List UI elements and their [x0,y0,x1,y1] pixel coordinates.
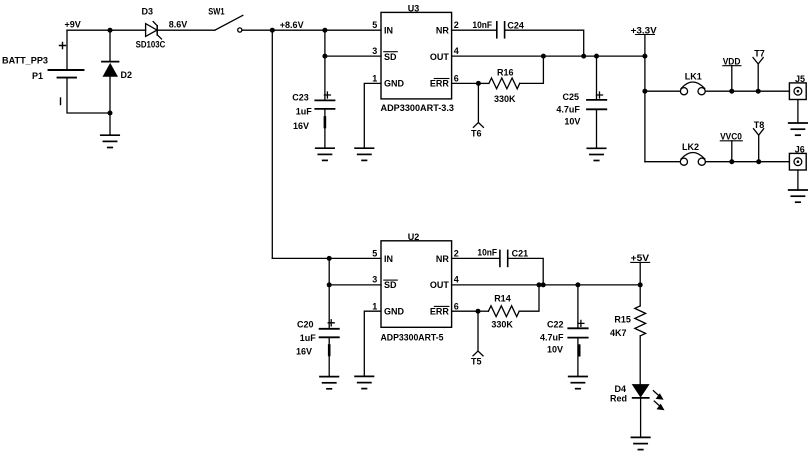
svg-text:+3.3V: +3.3V [631,25,657,35]
svg-text:C22: C22 [547,320,564,330]
wire U2 IN row [272,257,329,259]
op-amp U2 ADP3300ART-5 [372,232,458,343]
node R16/OUT junction [541,54,546,59]
svg-text:R16: R16 [497,67,514,77]
svg-text:5: 5 [372,20,377,30]
svg-text:6: 6 [454,301,459,311]
svg-text:ERR: ERR [430,79,450,89]
svg-text:C25: C25 [563,92,580,102]
node D2 top junction [108,28,113,33]
ground C25 [587,148,605,160]
node SD junction [322,54,327,59]
svg-text:IN: IN [384,254,393,264]
net label +5V [631,253,650,285]
svg-text:P1: P1 [32,71,43,81]
node +5V junction [638,282,643,287]
wire SD node down to C23 [324,56,326,100]
svg-text:+8.6V: +8.6V [280,20,304,30]
ground C23 [316,148,334,160]
ground U3 [355,148,373,160]
net label VVCO [720,132,742,162]
wire LK2 to J6 [705,161,789,163]
wire U2 GND pin 1 [364,311,381,376]
wire battery bottom [67,78,110,113]
svg-text:VVC0: VVC0 [720,132,742,142]
wire to ground [109,113,111,135]
svg-text:T7: T7 [754,48,765,58]
svg-text:16V: 16V [293,121,309,131]
svg-text:3: 3 [372,46,377,56]
svg-text:8.6V: 8.6V [169,20,188,30]
svg-text:ADP3300ART-5: ADP3300ART-5 [381,333,444,343]
wire +3.3V down to links [644,56,646,162]
wire battery top vertical [66,30,68,70]
wire D3 to SW1 [157,29,215,31]
svg-text:IN: IN [384,25,393,35]
svg-text:10V: 10V [564,117,580,127]
node LK1 branch junction [642,89,647,94]
svg-text:+5V: +5V [631,253,650,263]
svg-text:SD103C: SD103C [136,40,166,50]
svg-text:GND: GND [384,307,405,317]
svg-text:GND: GND [384,79,405,89]
capacitor C24 10nF [472,20,524,38]
resistor R16 330K [489,67,520,104]
link LK1 [680,72,705,95]
wire R15 to D4 [639,336,641,384]
svg-text:3: 3 [372,275,377,285]
wire vertical drop to U2 row [271,30,273,258]
node C24/OUT junction [581,54,586,59]
svg-text:NR: NR [436,25,449,35]
wire down to U2 SD node [328,258,330,285]
svg-text:+9V: +9V [65,20,81,30]
node U2 SD junction [327,282,332,287]
node R14/OUT junction [537,282,542,287]
svg-text:6: 6 [454,73,459,83]
svg-text:OUT: OUT [430,52,450,62]
node C21/OUT junction [541,282,546,287]
svg-text:2: 2 [454,249,459,259]
capacitor C23 1uF 16V [292,92,334,148]
svg-text:2: 2 [454,20,459,30]
svg-text:10nF: 10nF [477,248,497,258]
wire +5V to R15 [639,285,641,306]
node C25/OUT junction [594,54,599,59]
svg-text:SD: SD [384,52,397,62]
wire SW1 to node A [242,29,272,31]
svg-text:C24: C24 [507,20,524,30]
svg-text:SD: SD [384,280,397,290]
svg-text:4: 4 [454,275,459,285]
wire SD node down to C20 [328,285,330,329]
node B junction [322,28,327,33]
node battery bottom junction [108,111,113,116]
node A junction [270,28,275,33]
node T8 junction [756,159,761,164]
svg-text:U2: U2 [408,232,420,242]
diode D3 SD103C [136,7,166,50]
svg-text:1: 1 [372,301,377,311]
test point T8 [754,120,765,162]
svg-text:ADP3300ART-3.3: ADP3300ART-3.3 [381,103,455,113]
wire U3 OUT pin 4 rail [452,55,645,57]
wire U3 NR pin 2 to C24 [452,29,497,31]
wire to LK1 [645,90,681,92]
svg-text:1uF: 1uF [296,107,313,117]
wire J5 to ground [797,100,799,124]
test point T6 [471,83,483,138]
svg-text:Red: Red [610,394,627,404]
ground J6 [789,190,807,202]
wire to U2 IN pin 5 [329,257,381,259]
wire node B to U3 IN pin 5 [325,29,381,31]
node VVCO junction [729,159,734,164]
wire D2 node to D3 [110,29,146,31]
capacitor C25 4.7uF 10V [556,56,606,148]
node U2 ERR junction [476,309,481,314]
svg-text:LK1: LK1 [685,72,702,82]
svg-text:C23: C23 [292,93,309,103]
net label VDD [723,57,741,92]
svg-text:R15: R15 [614,314,631,324]
ground J5 [789,123,807,135]
resistor R15 4K7 [610,306,646,338]
switch SW1 [208,7,243,32]
wire node B down to SD node [324,30,326,56]
connector J6 [789,144,806,170]
LED D4 Red [610,384,665,410]
node T7 junction [756,89,761,94]
wire U2 ERR pin 6 [452,310,478,312]
svg-text:R14: R14 [494,294,511,304]
svg-text:4K7: 4K7 [610,328,627,338]
svg-text:LK2: LK2 [682,142,699,152]
wire U2 OUT pin 4 rail [452,284,641,286]
resistor R14 330K [488,294,519,330]
op-amp U3 ADP3300ART-3.3 [372,4,458,113]
wire ERR node to R16 [478,82,489,84]
svg-text:U3: U3 [408,4,420,14]
svg-text:C21: C21 [512,248,529,258]
capacitor C22 4.7uF 10V [540,285,588,377]
wire R16 to OUT rail [520,56,544,83]
test point T7 [753,48,765,91]
node VDD junction [729,89,734,94]
svg-text:ERR: ERR [430,307,450,317]
capacitor C20 1uF 16V [296,320,339,377]
wire R14 to OUT rail [519,285,539,311]
svg-text:T5: T5 [471,356,482,366]
svg-text:330K: 330K [491,320,513,330]
capacitor C21 10nF [477,248,528,267]
svg-text:1uF: 1uF [300,333,317,343]
svg-text:1: 1 [372,73,377,83]
ground U2 [355,376,373,388]
node C22/OUT junction [575,282,580,287]
wire U2 NR pin 2 to C21 [452,257,500,259]
wire SD node to U2 SD pin 3 [329,284,381,286]
svg-text:4: 4 [454,46,459,56]
svg-text:330K: 330K [494,94,516,104]
svg-text:10nF: 10nF [472,20,492,30]
svg-text:4.7uF: 4.7uF [556,104,580,114]
svg-text:BATT_PP3: BATT_PP3 [2,56,48,66]
diode D2 [102,30,132,113]
svg-text:D2: D2 [121,70,133,80]
svg-text:T6: T6 [471,128,482,138]
wire J6 to ground [797,170,799,190]
svg-text:D3: D3 [142,7,154,17]
node U2 IN junction [327,256,332,261]
link LK2 [680,142,705,165]
ground C20 [320,377,338,389]
wire D4 to ground [640,398,642,438]
svg-text:NR: NR [436,254,449,264]
wire SD node to U3 SD pin 3 [325,55,381,57]
wire ERR node to R14 [478,310,488,312]
connector J5 [789,74,806,100]
svg-text:16V: 16V [296,346,312,356]
node +3.3V junction [642,54,647,59]
svg-text:5: 5 [372,249,377,259]
battery P1 [2,43,84,105]
svg-text:4.7uF: 4.7uF [540,333,564,343]
wire +3.3V to LK2 [645,161,680,163]
svg-text:C20: C20 [297,320,314,330]
svg-text:SW1: SW1 [208,7,224,17]
ground D4 [631,437,649,449]
wire C21 to OUT rail [508,258,544,285]
ground battery [101,135,119,147]
wire C24 to OUT rail [505,30,584,56]
svg-text:T8: T8 [754,120,765,130]
ground C22 [569,377,587,389]
wire LK1 to J5 [705,90,789,92]
node ERR junction [476,81,481,86]
wire node A to node B [272,29,325,31]
wire top rail battery to D2 node [67,29,110,31]
svg-text:OUT: OUT [430,280,450,290]
test point T5 [471,311,483,366]
wire U3 ERR pin 6 [452,82,479,84]
wire U3 GND pin 1 [364,83,381,148]
net label +3.3V [631,25,657,56]
svg-text:10V: 10V [547,344,563,354]
